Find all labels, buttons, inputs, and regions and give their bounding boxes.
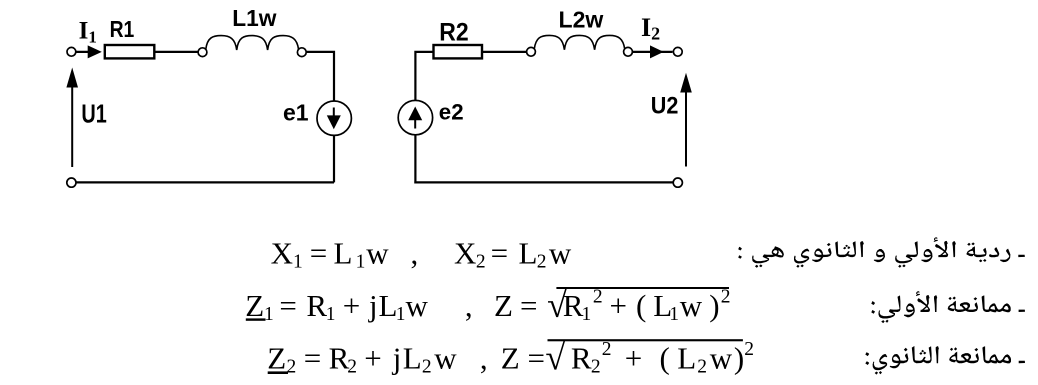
svg-text:w: w: [710, 340, 733, 375]
svg-text:R: R: [306, 288, 327, 323]
wire: R1 to L1: [155, 51, 199, 53]
svg-text:U1: U1: [81, 100, 106, 128]
svg-text:L1w: L1w: [232, 5, 277, 31]
svg-text:w: w: [549, 236, 572, 271]
svg-text:=: =: [520, 288, 537, 323]
source e1 arrow (down): [333, 108, 335, 118]
svg-text:2: 2: [721, 287, 731, 308]
svg-text:,: ,: [465, 288, 473, 323]
svg-text:2: 2: [347, 356, 357, 377]
svg-text:,: ,: [411, 236, 419, 271]
radicand line 3: [571, 339, 754, 377]
wire: primary bottom rail: [76, 181, 334, 183]
svg-text:I2: I2: [641, 13, 660, 43]
wire: secondary top-left corner: [415, 52, 433, 101]
node: L1 right pin: [297, 48, 306, 57]
node: L2 left pin: [527, 47, 536, 56]
svg-text:+: +: [625, 340, 642, 375]
svg-text:): ): [709, 288, 719, 323]
vinculum line 2: [556, 287, 729, 289]
svg-text:√: √: [545, 338, 565, 378]
svg-text:=: =: [310, 236, 327, 271]
wire: e1 down to bottom rail: [333, 135, 335, 182]
svg-text:w: w: [434, 340, 457, 375]
svg-text:1: 1: [264, 304, 274, 325]
svg-text:(: (: [660, 340, 670, 375]
svg-text:2: 2: [287, 356, 297, 377]
node: L1 left pin: [198, 48, 207, 57]
svg-text:j: j: [392, 340, 402, 375]
svg-text:I1: I1: [79, 18, 97, 47]
current arrow I1: [88, 45, 102, 58]
svg-text:X: X: [454, 236, 476, 271]
svg-text:=: =: [279, 288, 296, 323]
svg-text:2: 2: [422, 356, 432, 377]
svg-text:1: 1: [326, 304, 336, 325]
svg-text:2: 2: [537, 252, 547, 273]
source e2 circle: [398, 100, 432, 134]
svg-text:Z: Z: [501, 340, 520, 375]
svg-text:R2: R2: [439, 18, 468, 46]
svg-text:+: +: [364, 340, 381, 375]
svg-text:w: w: [680, 288, 703, 323]
underline of Z1: [246, 318, 266, 320]
source e2 arrow (up): [414, 119, 416, 129]
svg-text:X: X: [271, 236, 293, 271]
svg-text:R: R: [571, 340, 592, 375]
equation line 2: Z1 = R1 + jL1w , Z = sqrt(R1^2 + (L1w)^2): [245, 288, 537, 325]
svg-text:1: 1: [582, 304, 592, 325]
wire: I2 arrow lead: [632, 51, 672, 53]
arabic caption line 1: reactance of primary and secondary: [738, 237, 1025, 267]
svg-text:=: =: [304, 340, 321, 375]
terminal node: primary top-left: [67, 47, 76, 56]
svg-text:2: 2: [476, 252, 486, 273]
inductor L2w coil: [534, 35, 624, 49]
svg-text:R1: R1: [110, 16, 135, 42]
svg-text:e2: e2: [439, 100, 464, 125]
svg-text:L: L: [379, 288, 398, 323]
wire: L1 to top-right corner and down to e1: [306, 52, 334, 101]
terminal node: primary bottom-left: [67, 178, 76, 187]
svg-text:+: +: [343, 288, 360, 323]
svg-text:2: 2: [591, 356, 601, 377]
wire: R2 to L2: [482, 51, 527, 53]
svg-text:+: +: [610, 288, 627, 323]
svg-text:L: L: [677, 340, 696, 375]
arabic caption line 3: impedance of secondary: [865, 346, 1025, 375]
svg-text:Z: Z: [245, 288, 264, 323]
svg-text:U2: U2: [651, 93, 679, 120]
node: L2 right pin: [624, 47, 633, 56]
svg-text:L: L: [519, 236, 538, 271]
source e1 circle: [317, 101, 351, 135]
svg-text:L2w: L2w: [559, 7, 604, 33]
radicand line 2: [563, 287, 731, 325]
svg-text:=: =: [528, 340, 545, 375]
terminal node: secondary top-right: [673, 47, 682, 56]
voltage arrow U2 (up): [685, 91, 687, 167]
svg-text:): ): [734, 340, 744, 375]
svg-text:2: 2: [697, 356, 707, 377]
svg-text:=: =: [491, 236, 508, 271]
vinculum line 3: [548, 339, 743, 341]
wire: e2 down to bottom rail: [414, 135, 416, 184]
svg-text:2: 2: [602, 339, 612, 360]
svg-text:w: w: [406, 288, 429, 323]
svg-text:L: L: [334, 236, 353, 271]
underline of Z2: [268, 371, 288, 374]
svg-text:1: 1: [396, 304, 406, 325]
svg-text:,: ,: [480, 340, 488, 375]
svg-text:(: (: [636, 288, 646, 323]
svg-text:w: w: [366, 236, 389, 271]
resistor R1: [105, 45, 155, 58]
resistor R2: [434, 45, 483, 58]
equation line 1: X1 = L1w , X2 = L2w: [271, 236, 572, 273]
svg-text:2: 2: [744, 339, 754, 360]
svg-text:Z: Z: [494, 288, 513, 323]
arabic caption line 2: impedance of primary: [871, 291, 1025, 323]
svg-text:1: 1: [356, 252, 366, 273]
equation line 3: Z2 = R2 + jL2w , Z = sqrt(R2^2 + (L2w)^2): [267, 340, 545, 377]
svg-text:1: 1: [669, 304, 679, 325]
wire: secondary bottom rail: [414, 181, 673, 183]
inductor L1w coil: [206, 36, 299, 50]
svg-text:L: L: [403, 340, 422, 375]
voltage arrow U1 (up): [71, 85, 73, 167]
svg-text:1: 1: [293, 252, 303, 273]
current arrow I2: [650, 45, 664, 58]
terminal node: secondary bottom-right: [673, 178, 682, 187]
svg-text:Z: Z: [267, 340, 286, 375]
wire: I1 arrow lead: [76, 51, 92, 53]
svg-text:e1: e1: [283, 99, 309, 125]
svg-text:j: j: [368, 288, 378, 323]
svg-text:2: 2: [593, 287, 603, 308]
